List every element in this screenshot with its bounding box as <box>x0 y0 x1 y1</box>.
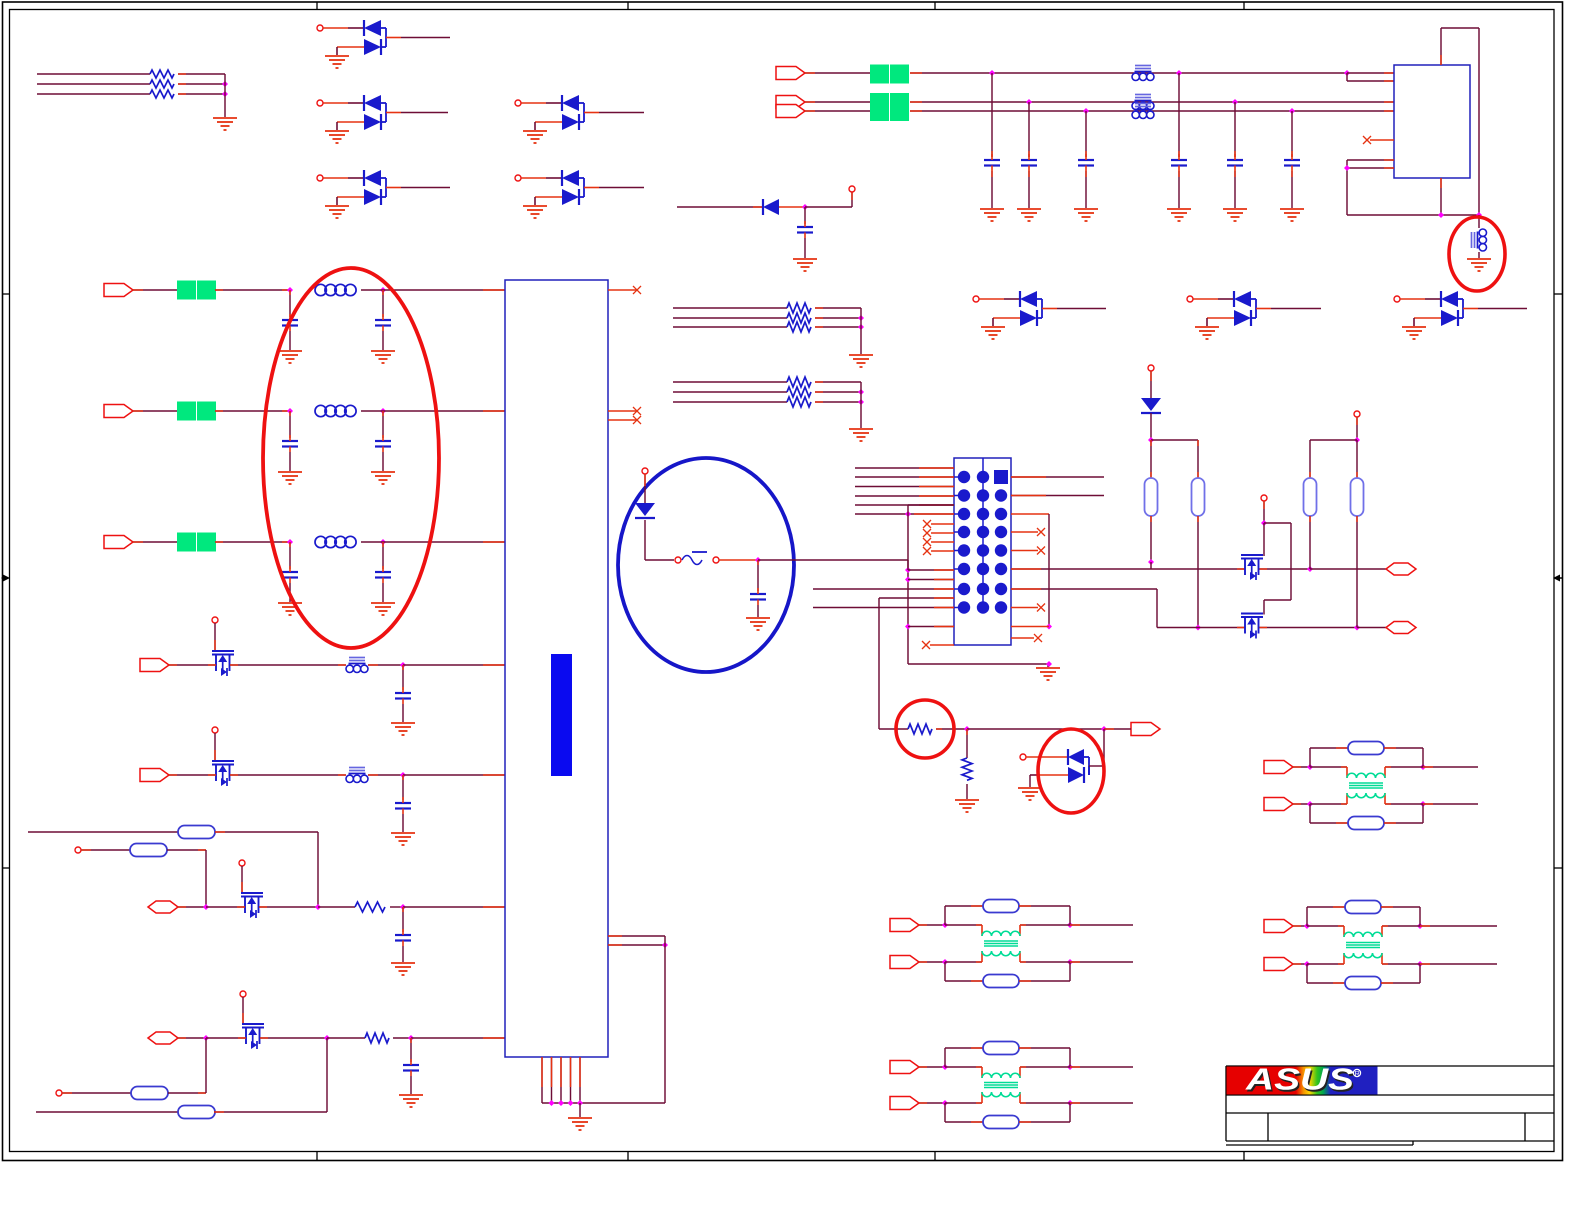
svg-text:ASUS: ASUS <box>1245 1062 1355 1097</box>
svg-text:R: R <box>1355 1071 1360 1078</box>
